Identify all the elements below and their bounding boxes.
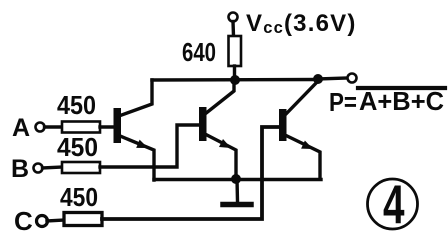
Vcc terminal (229, 13, 238, 22)
node input B terminal (34, 164, 43, 173)
node output junction (313, 74, 323, 84)
resistor R4 450 (input C) (64, 213, 102, 226)
figure number 4 in circle (368, 173, 418, 235)
svg-text:450: 450 (57, 90, 96, 120)
svg-text:A+B+C: A+B+C (359, 88, 444, 116)
wire common emitter rail (154, 178, 321, 181)
svg-text:B: B (11, 155, 29, 183)
resistor R3 450 (input B) (62, 162, 100, 173)
wire overline of A+B+C (358, 86, 445, 90)
svg-text:450: 450 (57, 132, 98, 162)
wire B terminal to resistor (43, 167, 63, 168)
svg-text:640: 640 (182, 37, 216, 67)
wire junction to ground (235, 179, 239, 201)
resistor R2 450 (input A) (62, 122, 100, 133)
svg-text:P=: P= (329, 89, 357, 117)
svg-text:Vcc(3.6V): Vcc(3.6V) (246, 10, 357, 37)
svg-text:C: C (14, 206, 33, 236)
node input C terminal (37, 216, 48, 227)
svg-text:4: 4 (383, 173, 405, 235)
svg-text:450: 450 (60, 182, 98, 212)
node emitter rail junction (231, 174, 241, 184)
node input A terminal (36, 123, 45, 132)
wire resistor to rail (233, 66, 236, 80)
wire to output terminal (318, 78, 347, 79)
label P=A+B+C output equation (329, 88, 444, 117)
wire Vcc to resistor (231, 22, 235, 37)
svg-text:A: A (12, 114, 30, 142)
label Vcc(3.6V) (246, 10, 357, 37)
node junction below resistor (230, 75, 240, 85)
resistor R1 640 body (229, 36, 242, 66)
wire A terminal to resistor (45, 125, 63, 128)
transistor Q3 (279, 81, 320, 179)
wire R4 to Q3 base (right then up) (102, 127, 279, 219)
output terminal (348, 74, 357, 83)
ground (223, 202, 251, 208)
wire C terminal to resistor (47, 220, 64, 221)
wire top collector rail (152, 78, 318, 82)
transistor Q2 (199, 80, 236, 180)
wire R3 to Q2 base (right then up) (100, 125, 199, 167)
transistor Q1 (114, 80, 155, 180)
wire R2 to Q1 base (100, 125, 113, 128)
